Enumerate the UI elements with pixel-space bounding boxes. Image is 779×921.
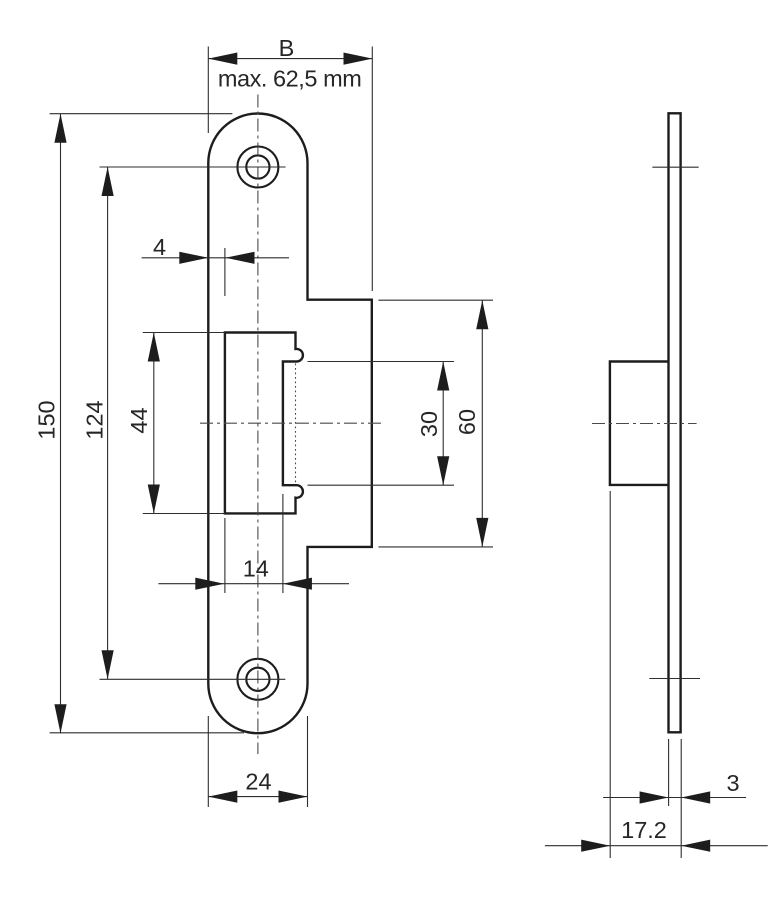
150 top extension line: [50, 113, 233, 115]
17.2 left extension line: [609, 491, 611, 858]
svg-text:3: 3: [726, 770, 739, 796]
side view plate: [669, 113, 681, 732]
4 dim arrow left (outside, pointing right): [179, 252, 208, 264]
horizontal centerline front view: [200, 422, 382, 424]
svg-text:max. 62,5 mm: max. 62,5 mm: [218, 65, 361, 91]
svg-text:4: 4: [153, 234, 166, 260]
side view bottom hole tick: [649, 678, 700, 680]
B dimension right extension line: [371, 47, 373, 292]
front view plate outline: [208, 114, 371, 734]
44 dimension line: [153, 333, 155, 514]
svg-text:44: 44: [126, 407, 152, 433]
150 bottom extension line: [50, 732, 244, 734]
B dimension left extension line: [207, 47, 209, 134]
60 dimension line: [481, 300, 483, 547]
17.2 dim arrow left (outside, pointing right): [581, 840, 610, 852]
3 / 17.2 right extension line: [680, 739, 682, 858]
3 dim arrow left (outside, pointing right): [640, 791, 669, 803]
14 dimension line: [158, 583, 349, 585]
17.2 dim arrow right (outside, pointing left): [681, 840, 710, 852]
30 dim arrow top: [437, 362, 449, 391]
30 dimension line: [442, 362, 444, 486]
14 dim arrow right (outside, pointing left): [283, 578, 312, 590]
44 dim arrow top: [148, 333, 160, 362]
150 dim arrow bottom: [54, 704, 66, 733]
124 dim arrow bottom: [102, 650, 114, 679]
150 dimension line: [60, 114, 62, 734]
24 dim arrow left: [208, 791, 237, 803]
bottom screw hole: [237, 659, 278, 700]
svg-text:150: 150: [33, 400, 59, 439]
14 left extension line: [224, 518, 226, 593]
hidden lip edge dotted line: [295, 364, 297, 484]
14 right extension line: [282, 494, 284, 593]
3 dimension line: [603, 797, 746, 799]
B dim arrow right: [344, 53, 373, 65]
B dim arrow left: [208, 53, 237, 65]
24 left extension line: [207, 716, 209, 807]
17.2 dimension line: [545, 845, 768, 847]
44 dim arrow bottom: [148, 485, 160, 514]
front view latch cutout with lip and relief notches: [225, 333, 303, 514]
side view top hole tick: [652, 166, 698, 168]
4 dim arrow right (outside, pointing left): [226, 252, 255, 264]
top screw hole: [237, 147, 278, 188]
60 dim arrow top: [476, 300, 488, 329]
124 bottom extension line: [100, 678, 286, 680]
124 dim arrow top: [102, 167, 114, 196]
vertical centerline front view: [257, 95, 259, 755]
24 dim arrow right: [279, 791, 308, 803]
4 dimension line: [142, 257, 289, 259]
14 dim arrow left (outside, pointing right): [195, 578, 224, 590]
svg-text:30: 30: [416, 411, 442, 437]
svg-text:24: 24: [245, 769, 271, 795]
svg-text:B: B: [279, 35, 295, 61]
150 dim arrow top: [54, 114, 66, 143]
30 top extension line: [308, 361, 455, 363]
124 dimension line: [107, 167, 109, 679]
3 left extension line: [668, 739, 670, 806]
svg-text:60: 60: [454, 409, 480, 435]
4 right extension line: [224, 248, 226, 296]
24 right extension line: [307, 716, 309, 807]
44 bottom extension line: [143, 513, 225, 515]
24 dimension line: [208, 796, 307, 798]
60 top extension line: [378, 299, 493, 301]
side view horizontal centerline: [592, 423, 697, 425]
svg-text:17.2: 17.2: [621, 817, 667, 843]
44 top extension line: [143, 332, 225, 334]
B dimension line: [208, 58, 372, 60]
svg-text:124: 124: [81, 400, 107, 439]
124 top extension line: [100, 166, 286, 168]
60 dim arrow bottom: [476, 518, 488, 547]
60 bottom extension line: [378, 546, 493, 548]
30 bottom extension line: [308, 484, 455, 486]
30 dim arrow bottom: [437, 456, 449, 485]
3 dim arrow right (outside, pointing left): [681, 791, 710, 803]
svg-text:14: 14: [243, 556, 269, 582]
side view latch box: [610, 362, 669, 485]
